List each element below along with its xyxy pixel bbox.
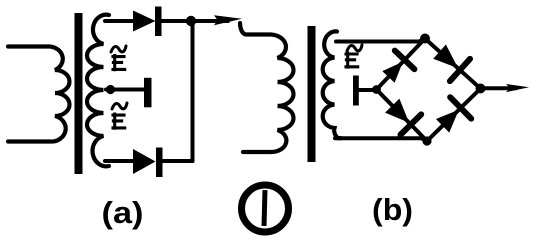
svg-text:(b): (b) [372, 192, 413, 227]
svg-text:(a): (a) [102, 195, 144, 230]
